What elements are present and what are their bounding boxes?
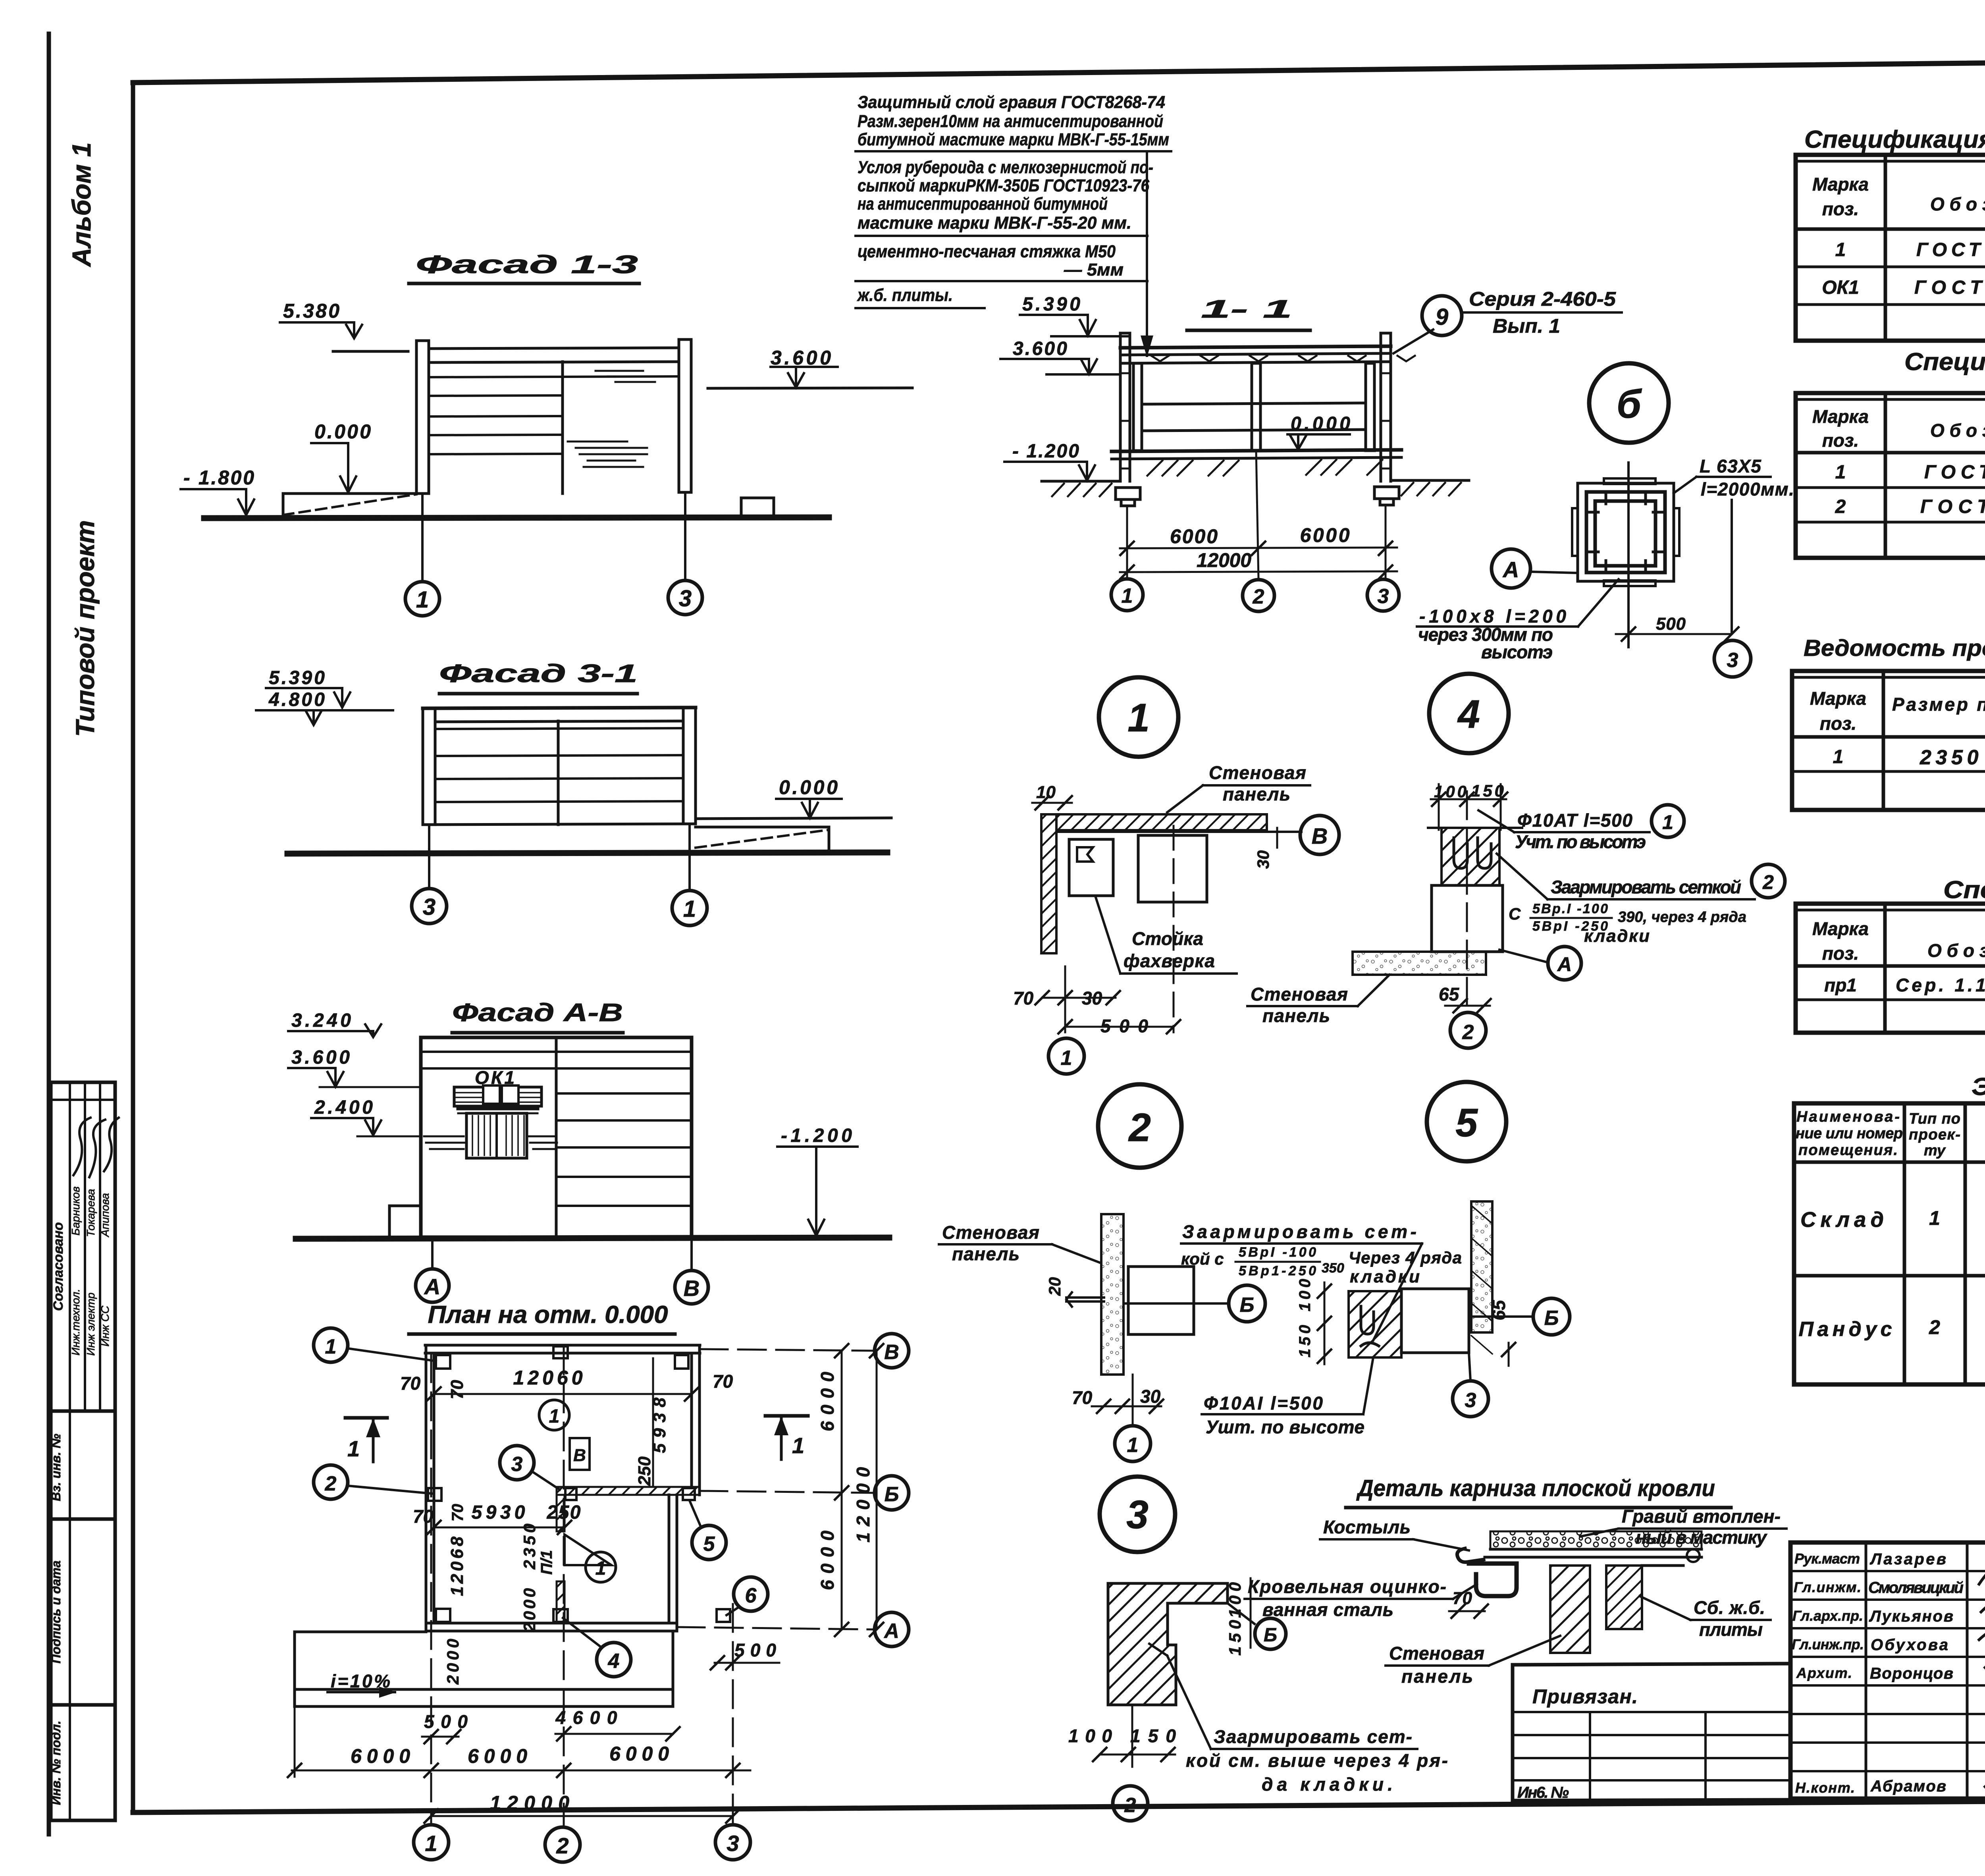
svg-text:1: 1 (683, 896, 696, 922)
svg-text:Гравий втоплен-: Гравий втоплен- (1622, 1506, 1781, 1527)
svg-text:6000: 6000 (609, 1743, 669, 1765)
svg-text:12060: 12060 (513, 1367, 583, 1389)
svg-text:1: 1 (425, 1831, 437, 1856)
svg-text:- 1.800: - 1.800 (183, 467, 254, 489)
svg-text:2: 2 (1253, 585, 1264, 608)
svg-text:2: 2 (1835, 496, 1846, 517)
svg-text:Пандус: Пандус (1799, 1318, 1892, 1341)
svg-text:150: 150 (1471, 781, 1504, 800)
svg-text:Типовой проект: Типовой проект (70, 520, 100, 737)
svg-text:кладки: кладки (1350, 1267, 1420, 1286)
svg-text:0.000: 0.000 (314, 420, 371, 443)
svg-text:1: 1 (1127, 696, 1150, 740)
svg-text:Деталь карниза плоской кровли: Деталь карниза плоской кровли (1356, 1475, 1715, 1501)
svg-text:Инж.технол.: Инж.технол. (69, 1289, 82, 1355)
svg-text:Обухова: Обухова (1871, 1636, 1948, 1654)
svg-text:250: 250 (635, 1456, 654, 1486)
svg-text:5.390: 5.390 (269, 667, 325, 688)
svg-text:2: 2 (556, 1833, 569, 1858)
svg-text:5.380: 5.380 (283, 300, 339, 322)
svg-text:-1.200: -1.200 (781, 1125, 852, 1146)
svg-text:5Вр1-250: 5Вр1-250 (1239, 1263, 1316, 1278)
svg-text:Спецификация элементов запол: Спецификация элементов заполнения проемо… (1804, 126, 1985, 153)
svg-text:250: 250 (547, 1502, 581, 1523)
svg-text:1: 1 (549, 1406, 560, 1427)
svg-text:Спецификация перемычек: Спецификация перемычек (1943, 876, 1985, 904)
svg-text:панель: панель (1223, 784, 1290, 804)
svg-text:Гл.инж.пр.: Гл.инж.пр. (1792, 1636, 1864, 1652)
svg-text:План на отм. 0.000: План на отм. 0.000 (428, 1301, 668, 1328)
svg-text:ОК1: ОК1 (1822, 277, 1859, 298)
svg-text:5.390: 5.390 (1022, 294, 1080, 315)
svg-text:Заармировать сеткой: Заармировать сеткой (1551, 877, 1741, 897)
svg-text:L 63Х5: L 63Х5 (1700, 456, 1761, 476)
svg-text:Воронцов: Воронцов (1870, 1665, 1953, 1682)
svg-text:Заармировать сет-: Заармировать сет- (1214, 1726, 1412, 1747)
svg-text:А: А (1502, 557, 1519, 582)
svg-text:2350: 2350 (520, 1524, 539, 1570)
svg-text:Стеновая: Стеновая (1389, 1643, 1484, 1664)
svg-text:ГОСТ 8478-81: ГОСТ 8478-81 (1920, 496, 1985, 517)
svg-text:А: А (883, 1620, 899, 1643)
svg-text:В: В (1312, 823, 1328, 848)
svg-text:6000: 6000 (468, 1745, 527, 1767)
svg-text:А: А (1557, 953, 1572, 976)
svg-text:Инж СС: Инж СС (99, 1305, 111, 1347)
svg-text:Смолявицкий: Смолявицкий (1868, 1579, 1964, 1596)
svg-text:1: 1 (1061, 1047, 1072, 1070)
svg-text:ванная сталь: ванная сталь (1262, 1599, 1393, 1620)
svg-text:кой с: кой с (1181, 1249, 1224, 1268)
svg-text:5930: 5930 (472, 1502, 525, 1523)
svg-text:2.400: 2.400 (314, 1097, 373, 1118)
svg-text:3.600: 3.600 (771, 347, 831, 369)
svg-text:Фасад 1-3: Фасад 1-3 (416, 250, 638, 279)
svg-text:ту: ту (1924, 1142, 1946, 1159)
svg-text:ГОСТ 5781-82: ГОСТ 5781-82 (1924, 462, 1985, 483)
svg-text:кой см. выше через 4 ря-: кой см. выше через 4 ря- (1186, 1750, 1448, 1771)
svg-text:2: 2 (1124, 1794, 1136, 1817)
svg-text:поз.: поз. (1820, 713, 1856, 734)
svg-text:поз.: поз. (1822, 943, 1859, 964)
svg-text:Абрамов: Абрамов (1870, 1778, 1946, 1795)
svg-text:Стеновая: Стеновая (1251, 984, 1348, 1005)
svg-text:Фасад 3-1: Фасад 3-1 (439, 659, 638, 688)
svg-text:2350 × 2400 (h): 2350 × 2400 (h) (1919, 746, 1985, 769)
svg-text:6000: 6000 (817, 1531, 838, 1590)
svg-text:4.800: 4.800 (268, 689, 325, 710)
svg-text:70: 70 (1072, 1387, 1093, 1408)
svg-text:2000: 2000 (520, 1588, 539, 1632)
svg-text:Альбом 1: Альбом 1 (67, 143, 96, 268)
svg-text:4600: 4600 (555, 1707, 617, 1728)
svg-text:1: 1 (1662, 811, 1673, 833)
svg-text:0.000: 0.000 (1291, 413, 1350, 434)
svg-text:Марка: Марка (1812, 174, 1869, 195)
svg-text:500: 500 (734, 1640, 776, 1660)
svg-text:6000: 6000 (817, 1372, 838, 1431)
svg-text:Через 4 ряда: Через 4 ряда (1349, 1248, 1462, 1267)
svg-text:Серия 2-460-5: Серия 2-460-5 (1469, 288, 1616, 310)
svg-text:6000: 6000 (1170, 525, 1218, 548)
svg-text:350: 350 (1322, 1261, 1344, 1276)
svg-text:Экспликация полов: Экспликация полов (1972, 1073, 1985, 1101)
svg-text:1: 1 (1833, 746, 1844, 767)
svg-text:2: 2 (1462, 1021, 1474, 1044)
svg-text:Ф10АI l=500: Ф10АI l=500 (1204, 1393, 1323, 1413)
svg-text:А: А (424, 1274, 440, 1299)
svg-text:Обозначение: Обозначение (1930, 420, 1985, 441)
svg-text:Разм.зерен10мм на антисептиров: Разм.зерен10мм на антисептированной (858, 112, 1163, 131)
svg-text:5Вр.I -100: 5Вр.I -100 (1532, 901, 1608, 916)
svg-text:1: 1 (1835, 462, 1846, 483)
svg-text:3: 3 (1378, 585, 1389, 608)
svg-text:70: 70 (447, 1380, 467, 1399)
svg-text:5ВрI -100: 5ВрI -100 (1239, 1245, 1316, 1260)
svg-text:Ф10АТ l=500: Ф10АТ l=500 (1517, 810, 1632, 831)
svg-text:65: 65 (1439, 984, 1460, 1005)
svg-text:20: 20 (1045, 1277, 1064, 1296)
svg-text:Стеновая: Стеновая (1209, 762, 1306, 783)
svg-text:Стеновая: Стеновая (942, 1222, 1039, 1243)
svg-text:0.000: 0.000 (779, 776, 838, 798)
svg-text:3: 3 (727, 1831, 739, 1856)
svg-text:проек-: проек- (1909, 1126, 1960, 1143)
svg-text:3.600: 3.600 (1013, 338, 1067, 359)
svg-text:Марка: Марка (1812, 406, 1869, 427)
svg-text:Рук.маст: Рук.маст (1794, 1550, 1860, 1567)
svg-text:Марка: Марка (1810, 688, 1866, 709)
svg-text:Гл.инжм.: Гл.инжм. (1794, 1579, 1861, 1595)
svg-text:Барников: Барников (69, 1186, 82, 1236)
svg-text:Сб. ж.б.: Сб. ж.б. (1694, 1597, 1765, 1618)
svg-text:12000: 12000 (853, 1467, 873, 1542)
svg-text:Вып. 1: Вып. 1 (1493, 315, 1560, 337)
svg-text:100: 100 (1226, 1582, 1244, 1618)
svg-text:1: 1 (792, 1433, 804, 1458)
svg-text:Ведомость проемов ворот: Ведомость проемов ворот (1804, 635, 1985, 661)
svg-text:2: 2 (1762, 871, 1774, 893)
svg-text:70: 70 (713, 1371, 733, 1392)
svg-text:сыпкой маркиРКМ-350Б ГОСТ10923: сыпкой маркиРКМ-350Б ГОСТ10923-76 (858, 176, 1149, 195)
svg-text:Апипова: Апипова (99, 1193, 111, 1238)
svg-text:70: 70 (413, 1506, 434, 1527)
svg-text:1: 1 (1127, 1434, 1139, 1457)
svg-text:В: В (884, 1341, 899, 1364)
svg-text:ж.б. плиты.: ж.б. плиты. (857, 285, 953, 305)
svg-text:Лукьянов: Лукьянов (1869, 1608, 1953, 1625)
svg-text:Привязан.: Привязан. (1532, 1685, 1638, 1708)
svg-text:цементно-песчаная стяжка М50: цементно-песчаная стяжка М50 (858, 242, 1116, 261)
svg-text:Вз. инв. №: Вз. инв. № (49, 1434, 63, 1501)
svg-text:Фасад А-В: Фасад А-В (452, 998, 623, 1027)
svg-text:1: 1 (325, 1335, 337, 1358)
svg-text:Склад: Склад (1800, 1208, 1884, 1232)
svg-text:1- 1: 1- 1 (1201, 295, 1292, 323)
svg-text:70: 70 (400, 1373, 421, 1394)
svg-text:- 1.200: - 1.200 (1012, 441, 1079, 462)
svg-text:поз.: поз. (1822, 430, 1859, 451)
svg-text:5: 5 (1455, 1101, 1478, 1145)
svg-text:6: 6 (745, 1584, 757, 1607)
svg-text:Обозначение: Обозначение (1927, 940, 1985, 961)
svg-text:150: 150 (1130, 1726, 1176, 1746)
svg-text:фахверка: фахверка (1124, 951, 1215, 971)
svg-text:Услоя рубероида с мелкозернист: Услоя рубероида с мелкозернистой по- (858, 158, 1153, 177)
svg-text:150: 150 (1226, 1620, 1244, 1656)
svg-text:Тип по: Тип по (1909, 1111, 1960, 1127)
svg-text:3.600: 3.600 (291, 1047, 350, 1068)
svg-text:Подпись и дата: Подпись и дата (49, 1560, 63, 1663)
svg-text:l=2000мм.: l=2000мм. (1701, 479, 1794, 499)
svg-text:П/1: П/1 (538, 1550, 555, 1575)
svg-text:1: 1 (1835, 239, 1846, 260)
svg-text:ние или номер: ние или номер (1796, 1125, 1903, 1142)
svg-text:3: 3 (679, 586, 692, 611)
svg-text:ГОСТ 12506-81: ГОСТ 12506-81 (1914, 277, 1985, 298)
svg-text:Архит.: Архит. (1796, 1665, 1852, 1681)
svg-text:1: 1 (1122, 584, 1133, 607)
svg-text:Б: Б (885, 1483, 899, 1506)
svg-text:помещения.: помещения. (1798, 1142, 1898, 1159)
svg-text:Костыль: Костыль (1323, 1517, 1411, 1537)
svg-text:3.240: 3.240 (291, 1010, 351, 1031)
svg-text:Сер. 1.138-10 вып. 1: Сер. 1.138-10 вып. 1 (1896, 975, 1985, 995)
svg-text:Лазарев: Лазарев (1869, 1550, 1946, 1568)
svg-text:-100х8 l=200: -100х8 l=200 (1419, 606, 1566, 627)
svg-text:Ушт. по высоте: Ушт. по высоте (1206, 1417, 1364, 1437)
svg-text:3: 3 (1465, 1389, 1476, 1412)
svg-text:Б: Б (1240, 1294, 1255, 1317)
svg-text:Стойка: Стойка (1132, 928, 1203, 949)
svg-text:Инж электр: Инж электр (85, 1292, 97, 1355)
svg-text:2: 2 (1128, 1105, 1151, 1150)
svg-text:1: 1 (416, 587, 429, 613)
svg-text:150: 150 (1296, 1325, 1314, 1357)
svg-text:С: С (1509, 904, 1521, 923)
svg-text:3: 3 (511, 1453, 523, 1476)
svg-text:1: 1 (1929, 1207, 1940, 1229)
svg-text:Заармировать сет-: Заармировать сет- (1182, 1221, 1416, 1242)
svg-text:Ин6. №: Ин6. № (1517, 1784, 1569, 1801)
svg-text:3: 3 (423, 894, 436, 920)
svg-text:Н.конт.: Н.конт. (1795, 1780, 1855, 1796)
svg-text:70: 70 (449, 1504, 466, 1522)
svg-text:мастике марки МВК-Г-55-20 мм.: мастике марки МВК-Г-55-20 мм. (858, 213, 1131, 233)
svg-text:Марка: Марка (1812, 918, 1869, 939)
svg-text:на антисептированной битумной: на антисептированной битумной (858, 194, 1108, 214)
svg-text:70: 70 (1013, 988, 1034, 1008)
svg-text:30: 30 (1254, 850, 1272, 869)
svg-text:ГОСТ 14624- 69: ГОСТ 14624- 69 (1916, 239, 1985, 260)
svg-text:Инв. № подл.: Инв. № подл. (49, 1721, 63, 1805)
svg-text:Б: Б (1264, 1625, 1277, 1646)
svg-text:5: 5 (703, 1533, 715, 1556)
svg-text:12000: 12000 (1197, 549, 1251, 571)
svg-text:100: 100 (1068, 1726, 1112, 1746)
svg-text:500: 500 (424, 1711, 468, 1732)
svg-text:— 5мм: — 5мм (1064, 260, 1124, 280)
svg-text:панель: панель (1262, 1005, 1330, 1026)
svg-text:12068: 12068 (447, 1536, 467, 1596)
svg-text:битумной мастике марки МВК-Г-5: битумной мастике марки МВК-Г-55-15мм (858, 130, 1169, 149)
svg-text:Б: Б (1544, 1307, 1559, 1330)
svg-text:4: 4 (608, 1650, 620, 1673)
svg-text:панель: панель (952, 1244, 1019, 1264)
svg-text:да кладки.: да кладки. (1262, 1774, 1393, 1795)
svg-text:3: 3 (1727, 649, 1738, 672)
svg-text:высотэ: высотэ (1481, 642, 1553, 662)
svg-text:Обозначение: Обозначение (1930, 194, 1985, 214)
svg-text:Кровельная оцинко-: Кровельная оцинко- (1248, 1576, 1446, 1597)
svg-text:плиты: плиты (1699, 1619, 1763, 1640)
svg-text:поз.: поз. (1822, 199, 1859, 219)
svg-text:9: 9 (1436, 304, 1448, 330)
svg-text:500: 500 (1656, 614, 1686, 634)
svg-text:Токарева: Токарева (85, 1189, 97, 1237)
svg-text:3: 3 (1126, 1492, 1149, 1537)
svg-text:б: б (1617, 382, 1642, 426)
svg-text:2: 2 (325, 1472, 337, 1495)
svg-text:100: 100 (1296, 1279, 1314, 1311)
svg-text:1: 1 (347, 1436, 360, 1461)
svg-text:390, через 4 ряда: 390, через 4 ряда (1618, 909, 1746, 925)
svg-text:пр1: пр1 (1824, 975, 1857, 995)
svg-text:панель: панель (1401, 1666, 1473, 1687)
svg-text:Размер проема в кладке: Размер проема в кладке (1892, 694, 1985, 715)
svg-text:2000: 2000 (443, 1639, 462, 1685)
svg-text:6000: 6000 (1300, 524, 1350, 546)
svg-text:4: 4 (1457, 692, 1480, 737)
svg-text:65: 65 (1488, 1300, 1509, 1321)
svg-text:Спецификаци. я стали: Спецификаци. я стали (1904, 348, 1985, 376)
svg-text:Наименова-: Наименова- (1796, 1109, 1900, 1125)
svg-text:Согласовано: Согласовано (51, 1222, 66, 1311)
svg-text:В: В (573, 1446, 586, 1465)
svg-text:Учт. по высотэ: Учт. по высотэ (1515, 831, 1646, 852)
svg-text:6000: 6000 (351, 1745, 410, 1767)
svg-text:1: 1 (595, 1558, 606, 1579)
svg-text:Защитный слой гравия ГОСТ8268-: Защитный слой гравия ГОСТ8268-74 (858, 93, 1165, 112)
svg-text:2: 2 (1929, 1316, 1940, 1338)
svg-text:В: В (684, 1276, 700, 1301)
svg-text:Гл.арх.пр.: Гл.арх.пр. (1792, 1608, 1863, 1624)
